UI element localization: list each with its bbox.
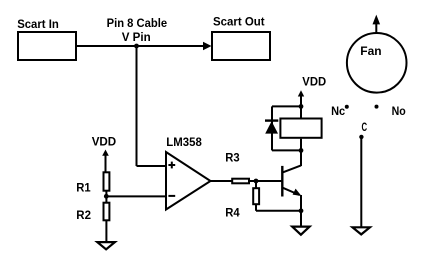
wire R3 to base — [250, 180, 283, 182]
wire R4 bottom — [255, 204, 257, 211]
fan arrow up — [375, 23, 377, 33]
Scart Out box J2 — [212, 32, 270, 60]
wire junction to op-amp - input — [106, 195, 166, 197]
transistor Q1 collector — [282, 165, 301, 172]
arrowhead into Scart Out — [203, 42, 212, 50]
node C contact — [359, 135, 363, 139]
wire to op-amp + input — [137, 165, 167, 167]
wire R1-R2 — [105, 191, 107, 203]
resistor R2 — [104, 203, 110, 221]
ground under Q1 emitter — [292, 227, 309, 235]
diode D1 branch wire — [271, 106, 273, 150]
transistor Q1 base bar — [281, 166, 283, 197]
op-amp U1 LM358 — [166, 152, 211, 210]
node Nc contact — [345, 105, 349, 109]
resistor R1 — [104, 172, 110, 190]
node emitter/R4 junction — [299, 208, 304, 213]
op-amp minus sign — [168, 195, 175, 197]
svg-text:R4: R4 — [225, 206, 240, 220]
svg-text:VDD: VDD — [92, 134, 117, 148]
resistor R4 — [253, 188, 259, 204]
svg-text:C: C — [362, 120, 368, 134]
node R1/R2 junction — [104, 194, 109, 199]
svg-text:Nc: Nc — [331, 104, 345, 118]
wire R4 to emitter — [256, 210, 301, 212]
wire C to ground — [360, 137, 362, 227]
wire relay top to diode — [272, 105, 301, 107]
svg-text:Fan: Fan — [360, 44, 381, 58]
node V Pin junction — [134, 44, 139, 49]
svg-text:Scart In: Scart In — [17, 17, 59, 31]
svg-text:No: No — [392, 104, 406, 118]
node relay top junction — [299, 104, 304, 109]
svg-text:R1: R1 — [76, 181, 91, 195]
wire junction down to R4 — [255, 181, 257, 188]
svg-text:R3: R3 — [225, 151, 240, 165]
svg-text:Scart Out: Scart Out — [213, 15, 265, 29]
wire op-amp output to R3 — [211, 180, 233, 182]
wire relay coil bottom — [300, 139, 302, 165]
op-amp plus sign — [168, 164, 175, 166]
svg-text:LM358: LM358 — [166, 135, 202, 149]
svg-text:Pin 8 Cable: Pin 8 Cable — [107, 16, 168, 30]
transistor Q1 emitter — [282, 188, 299, 195]
resistor R3 — [232, 179, 249, 184]
Scart In box J1 — [18, 32, 76, 60]
ground under R2 — [97, 242, 115, 249]
svg-text:R2: R2 — [76, 208, 91, 222]
node No contact — [375, 105, 379, 109]
svg-text:V Pin: V Pin — [122, 30, 151, 44]
svg-text:VDD: VDD — [302, 75, 326, 89]
fan M1 — [347, 33, 407, 93]
node base/R4 junction — [254, 179, 259, 184]
node relay bottom junction — [299, 148, 304, 153]
diode D1 — [265, 119, 278, 121]
relay coil K1 — [280, 119, 321, 138]
ground under C — [353, 227, 370, 234]
wire relay bottom to diode — [272, 149, 301, 151]
wire Scart In to Scart Out — [77, 45, 204, 47]
wire R2 to ground — [105, 220, 107, 242]
wire V Pin vertical — [136, 46, 138, 166]
